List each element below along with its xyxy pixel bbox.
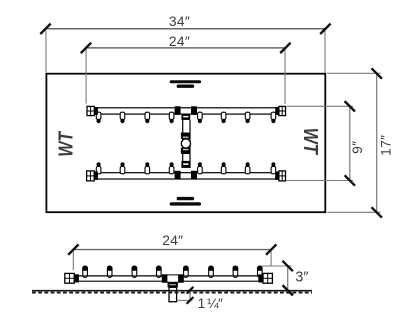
dimension 1 1/4 inch [177,287,223,311]
svg-text:24″: 24″ [162,233,183,248]
nozzle B7 [245,166,250,173]
side nozzle S8 [258,266,263,277]
dimension 17 inch [327,68,394,217]
nozzle T5 [198,112,203,119]
pan bottom center handle [170,197,202,206]
valve body circle [181,139,190,148]
nozzle B6 [221,166,226,173]
nozzle T3 [145,112,150,119]
pan top center handle [170,80,202,88]
side view center tee [162,274,184,287]
side nozzle S6 [209,266,214,277]
nozzle T4 [169,112,174,119]
dimension 9 inch [286,101,365,186]
burner bottom tube right end cap [275,171,285,181]
nozzle B3 [145,166,150,173]
burner bottom tube nozzles [96,162,275,174]
nozzle B5 [198,166,203,173]
side view tube top line over nozzles [74,275,263,277]
svg-text:WT: WT [55,130,77,157]
side nozzle S7 [233,266,238,277]
svg-text:17″: 17″ [379,135,394,156]
nozzle B1 [96,166,101,173]
side view right end cap [258,273,272,283]
dimension 34 inch [40,14,330,72]
center tee collars on top tube [175,106,181,115]
svg-text:34″: 34″ [169,14,190,29]
dimension 3 inch [262,261,308,296]
nozzle B8 [271,166,276,173]
top coupling [181,114,190,120]
side nozzle S2 [107,266,112,277]
burner top tube nozzles [96,112,275,123]
side nozzle S4 [157,266,162,277]
valve upper band [181,133,191,139]
tee lower coupling [168,283,178,288]
dimension 24 inch side view [68,233,276,270]
side view left end cap [65,273,79,283]
center supply tube assembly [175,106,197,179]
bottom coupling [181,161,190,168]
svg-text:WT: WT [300,128,323,156]
burner top tube right end cap [275,106,285,115]
center tee collars on bottom tube [175,171,181,180]
burner bottom tube left end cap [87,171,98,181]
nozzle T1 [96,112,101,119]
supply pipe nipple [169,287,177,301]
nozzle B2 [120,166,125,173]
dimension 24 inch top [81,34,291,104]
burner top tube [94,108,279,114]
side nozzle S1 [83,266,88,277]
ground line solid [32,290,312,292]
side nozzle S5 [184,266,189,277]
side view burner tube [74,276,263,281]
nozzle T2 [120,112,125,119]
svg-text:24″: 24″ [169,34,190,49]
ground line dashes [32,292,312,294]
burner top tube left end cap [87,106,98,115]
nozzle T6 [221,112,226,119]
side view nozzles [82,266,262,278]
valve lower band [181,148,191,154]
nozzle T7 [245,112,250,119]
burner bottom tube [94,173,279,179]
fire pit pan outline [46,74,325,213]
svg-text:3″: 3″ [295,270,308,286]
center vertical tube walls [182,120,184,168]
nozzle T8 [271,112,276,119]
svg-text:1 ¼″: 1 ¼″ [198,296,223,311]
side nozzle S3 [132,266,137,277]
svg-text:9″: 9″ [350,141,365,154]
nozzle B4 [169,166,174,173]
